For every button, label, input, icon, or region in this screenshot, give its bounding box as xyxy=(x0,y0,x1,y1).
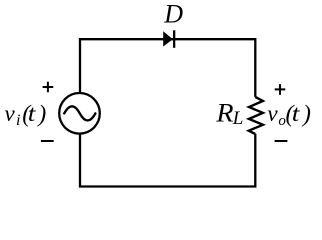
diode D cathode bar xyxy=(173,30,175,48)
svg-text:v: v xyxy=(267,101,278,126)
diode D triangle (anode) xyxy=(163,31,173,46)
label v_i(t) : v xyxy=(5,101,47,129)
plus sign right xyxy=(275,84,286,95)
svg-text:t: t xyxy=(28,102,37,127)
source V1 circle xyxy=(59,93,100,134)
label v_o(t) xyxy=(267,101,311,129)
wire bottom loop (left-lower, bottom, right-lower segments) xyxy=(80,134,255,187)
svg-text:): ) xyxy=(36,101,46,127)
svg-text:D: D xyxy=(163,0,183,28)
label R_L : R xyxy=(215,99,243,130)
svg-text:): ) xyxy=(301,101,311,127)
resistor R_L zigzag xyxy=(249,97,263,134)
svg-text:t: t xyxy=(292,102,301,127)
plus sign left xyxy=(43,82,54,93)
svg-text:R: R xyxy=(215,99,234,128)
minus sign right xyxy=(275,140,288,142)
wire top loop (left-upper, top, right-upper segments) xyxy=(80,39,255,97)
svg-text:i: i xyxy=(16,112,20,129)
source V1 sine symbol xyxy=(64,106,95,120)
minus sign left xyxy=(41,140,54,142)
svg-text:L: L xyxy=(232,108,244,129)
svg-text:v: v xyxy=(5,101,16,126)
